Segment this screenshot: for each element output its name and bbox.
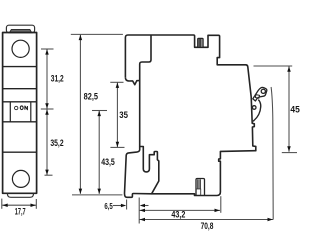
dimension labels [15, 74, 300, 232]
svg-text:31,2: 31,2 [51, 74, 64, 84]
arrowheads [2, 35, 290, 221]
arrow 35.2 bottom [45, 170, 49, 175]
front view ON window right divider [30, 102, 32, 122]
svg-text:17,7: 17,7 [15, 206, 26, 216]
arrows 35 [116, 83, 120, 88]
front view indicator circle in ON window [15, 106, 18, 109]
svg-text:43,2: 43,2 [171, 210, 185, 220]
side view top ribbed grip block [198, 38, 203, 47]
front view section line 4 [3, 151, 37, 153]
front view top clip tab [6, 25, 34, 32]
dim tick top (circle centre) [41, 48, 54, 50]
dim 43.2 right extension [220, 196, 222, 213]
dim 45 line [288, 66, 290, 151]
svg-text:45: 45 [290, 105, 299, 115]
side view rear clamp screw slot [255, 95, 259, 99]
front view ON window left divider [9, 102, 11, 122]
front view ON window bottom line [3, 121, 37, 123]
side view bottom DIN clip ribbed block [196, 179, 205, 196]
arrow 31.2 top [45, 49, 49, 54]
arrows 82.5 [79, 35, 83, 40]
arrows middle converging [45, 103, 49, 108]
svg-text:82,5: 82,5 [84, 91, 98, 101]
arrows 43.5 [97, 111, 101, 116]
dim 70.8 line [140, 219, 274, 221]
front view bottom clip tab [8, 194, 34, 198]
svg-text:35: 35 [119, 110, 128, 120]
front view top dark wedge [10, 29, 32, 32]
side view main outline [125, 35, 255, 196]
dim 45 bottom tick [282, 152, 297, 154]
side bottom extension line [72, 194, 122, 196]
svg-text:6,5: 6,5 [104, 202, 113, 211]
arrows 43.2 [140, 209, 145, 213]
side view rear clamp screw circle [261, 89, 265, 93]
front view section line 2 [3, 88, 37, 90]
dim 6.5 leader left [113, 205, 121, 207]
side view front lower terminal block [125, 147, 152, 198]
svg-text:35,2: 35,2 [50, 138, 63, 148]
dim 6.5 leader right [145, 205, 149, 207]
arrows 17.7 [2, 203, 7, 207]
arrows 6.5 [121, 204, 126, 208]
side top extension line [71, 33, 123, 35]
front view bottom screw circle [12, 170, 29, 187]
dim 17.7 extension lines [1, 199, 3, 209]
dim 6.5 extension lines [126, 200, 128, 210]
dim tick bottom [45, 174, 53, 176]
dim 35 line [116, 82, 118, 147]
dim 43.2 line [140, 209, 221, 211]
dim tick middle [41, 108, 54, 110]
dim 82.5 line [79, 35, 81, 194]
front view ON label [20, 106, 23, 110]
dim 43.5 line [98, 111, 100, 194]
side view rear clamp cage arc [253, 100, 261, 122]
side view rear clamp lever body [253, 87, 267, 101]
front view section line 3 (ON window top) [3, 101, 37, 103]
svg-text:70,8: 70,8 [201, 221, 214, 231]
dim 17.7 line [2, 204, 36, 206]
front view top screw circle [12, 40, 29, 57]
front view section line 1 [3, 66, 37, 68]
side view rear clamp pivot circle [252, 106, 256, 110]
dim 70.8 right extension (lever swing line) [271, 87, 273, 220]
front view body [3, 33, 37, 194]
arrows 70.8 [140, 218, 145, 222]
dim 35 top tick [110, 81, 123, 83]
dim 45 top extension [254, 65, 293, 67]
dim 31.2/35.2 vertical line [46, 49, 48, 175]
dim 43.5 top tick [92, 110, 107, 112]
svg-text:43,5: 43,5 [101, 157, 115, 167]
side view toggle handle [125, 77, 139, 84]
dim 35 bottom tick [110, 146, 124, 148]
arrows 45 [287, 66, 291, 71]
